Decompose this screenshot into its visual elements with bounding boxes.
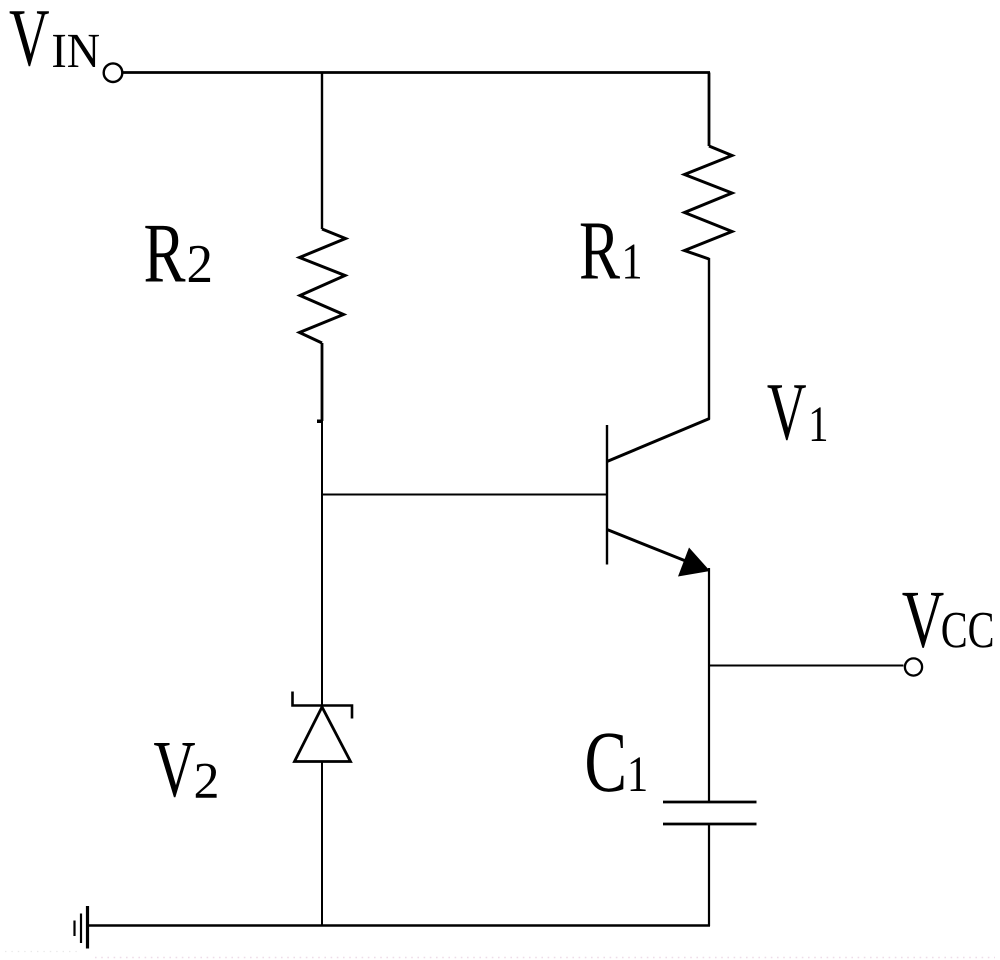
label V2 main <box>154 743 195 797</box>
label C1 subscript <box>631 757 646 791</box>
label VIN main <box>10 11 49 66</box>
wire R2 to junction (thicker) <box>321 343 324 421</box>
node VIN terminal <box>104 63 123 82</box>
transistor V1 base bar <box>606 425 608 565</box>
label R2 main <box>145 226 185 282</box>
wire top horizontal <box>122 71 711 74</box>
capacitor C1 bottom plate <box>663 823 757 826</box>
transistor V1 emitter diagonal <box>607 530 692 564</box>
wire junction to zener <box>321 421 323 706</box>
transistor V1 emitter arrow <box>678 548 710 577</box>
label VIN subscript <box>53 35 99 67</box>
zener diode V2 cathode bar <box>293 692 353 719</box>
wire R2 branch upper <box>321 73 323 230</box>
wire R1 top to corner <box>708 73 711 147</box>
label V1 main <box>768 385 806 440</box>
wire VCC horizontal <box>709 665 904 667</box>
zener diode V2 triangle <box>295 707 351 762</box>
wire collector vertical <box>708 258 710 420</box>
label R2 subscript <box>189 246 210 282</box>
wire bottom horizontal <box>87 924 710 926</box>
label C1 main <box>587 733 623 791</box>
resistor R1 <box>685 146 733 259</box>
label VCC subscript <box>942 613 992 648</box>
label R1 subscript <box>625 244 640 278</box>
transistor V1 collector diagonal <box>607 419 710 462</box>
junction tick <box>317 420 323 424</box>
wire base horizontal <box>322 494 607 496</box>
ground bar small <box>73 921 75 937</box>
node VCC terminal <box>905 658 922 675</box>
label V1 subscript <box>812 407 826 441</box>
resistor R2 <box>300 229 346 343</box>
ground bar middle <box>80 914 82 944</box>
label V2 subscript <box>196 764 217 798</box>
label VCC main <box>902 593 943 648</box>
ground bar large <box>86 906 89 949</box>
scan artifact dotted line left <box>5 951 78 953</box>
wire capacitor to bottom <box>708 824 710 926</box>
label R1 main <box>581 224 620 279</box>
scan artifact dotted line right <box>95 957 995 959</box>
wire emitter down to capacitor <box>708 568 710 802</box>
capacitor C1 top plate <box>663 801 757 804</box>
wire zener to bottom <box>321 762 323 926</box>
